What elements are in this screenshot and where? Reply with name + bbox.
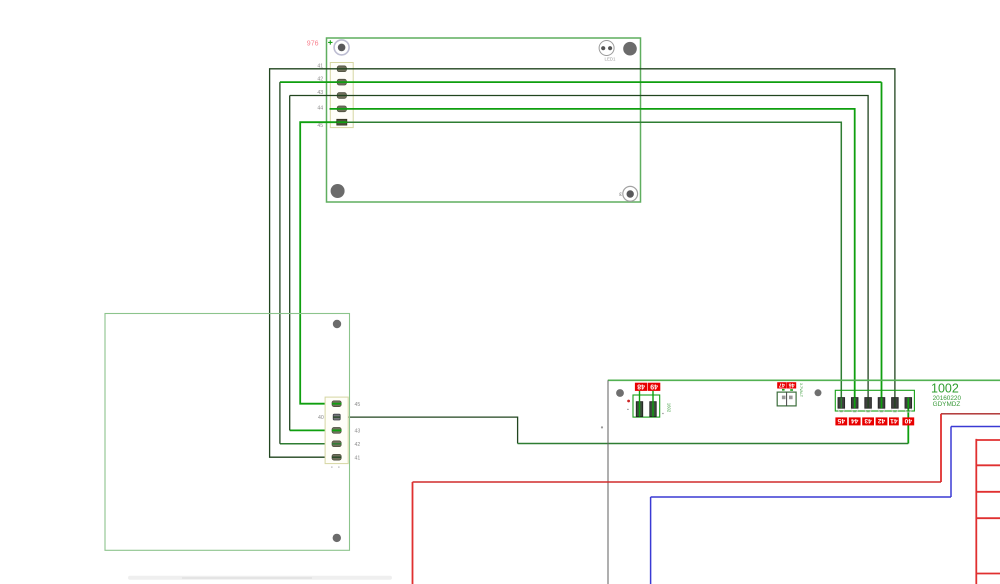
pin label 42 (J3 red) — [876, 417, 888, 425]
wire stub pad2 C48 — [652, 391, 654, 417]
mounting hole H7 — [616, 389, 624, 397]
red comb rung 2 — [976, 464, 1000, 466]
pad 40 (J3) — [905, 398, 912, 409]
origin marker — [328, 40, 332, 44]
wire over pad 45 J1 — [337, 121, 347, 123]
pad 41 (J1) — [337, 66, 346, 72]
board PCB3 left edge (gray) — [607, 380, 609, 584]
svg-text:48: 48 — [637, 382, 645, 389]
pad 42 (J3) — [878, 398, 885, 409]
red connector comb vertical — [975, 439, 977, 584]
pin label 44 (J3 red) — [849, 417, 861, 425]
wire net43 left vertical — [289, 96, 291, 431]
wire over pad 40 J2 — [333, 416, 340, 418]
wire net40 long horizontal — [518, 443, 909, 445]
svg-text:43: 43 — [317, 90, 323, 96]
svg-text:976: 976 — [307, 41, 319, 48]
wire net42 left vertical — [279, 82, 281, 444]
wire net41 — [270, 69, 895, 457]
wire net43 top and right — [290, 96, 868, 404]
blue trace left vertical — [650, 497, 652, 584]
tick marks below connector J2 — [331, 467, 333, 468]
ref label 47 (red) — [777, 382, 787, 388]
tiny gray mark C — [601, 426, 603, 428]
mounting hole H5 — [333, 320, 341, 328]
wire over pad 44 J1 — [337, 108, 347, 110]
wire net42 bottom segment — [280, 443, 337, 445]
svg-text:42: 42 — [878, 417, 886, 424]
blue trace right vertical — [950, 427, 952, 498]
red marker dot — [627, 400, 630, 403]
component C48 pad 2 — [650, 402, 656, 417]
connector J3 scallop arcs — [838, 410, 912, 413]
svg-text:LED1: LED1 — [605, 57, 617, 62]
wire net40 left segment — [337, 417, 518, 443]
svg-text:1602: 1602 — [667, 403, 672, 413]
pad 43 (J2) — [332, 428, 341, 434]
wire over pad 43 J1 — [337, 95, 347, 97]
wire stub pad1 C48 — [639, 391, 641, 417]
svg-text:43: 43 — [864, 417, 872, 424]
wire net42 top horizontal — [280, 81, 882, 83]
board outline PCB2 (left board) — [105, 314, 350, 551]
mounting hole H3 bottom-left — [331, 184, 345, 198]
pad 42 (J2) — [332, 441, 341, 447]
mounting hole H1 top-left — [334, 40, 349, 55]
LED1 footprint — [599, 41, 614, 56]
svg-text:1002: 1002 — [931, 382, 959, 396]
pad 44 (J1) — [337, 106, 346, 112]
blue trace top stub — [951, 426, 1000, 428]
component U46 pad right — [789, 396, 793, 400]
svg-text:45: 45 — [355, 402, 361, 408]
wire over pad 41 J3 — [894, 398, 896, 409]
ref label 46 (red) — [787, 382, 796, 388]
board outline PCB1 (top display board) — [327, 38, 641, 202]
svg-text:3.7VALT: 3.7VALT — [799, 383, 803, 398]
wire over pad 41 J2 — [332, 456, 341, 458]
svg-text:42: 42 — [317, 76, 323, 82]
wire net42 right vertical — [881, 82, 883, 403]
ref label 48 (red) — [635, 383, 647, 391]
pad 45 (J1) — [337, 119, 347, 125]
component C48 pad 1 — [636, 402, 642, 417]
component U46 outline — [777, 392, 796, 406]
svg-text:43: 43 — [355, 429, 361, 435]
pad 45 (J3) — [838, 398, 845, 409]
pad 41 (J2) — [332, 454, 341, 460]
component U46 pads top — [782, 389, 785, 391]
mounting hole H4 bottom-right — [619, 186, 637, 201]
red comb rung 1 — [976, 439, 1000, 441]
pin label 43 (J3 red) — [862, 417, 874, 425]
wire over pad 45 J3 — [840, 398, 842, 409]
svg-text:40: 40 — [318, 415, 324, 421]
svg-text:44: 44 — [317, 105, 323, 111]
pad 43 (J3) — [865, 398, 872, 409]
svg-text:45: 45 — [837, 417, 845, 424]
red trace left vertical — [412, 482, 414, 584]
svg-text:49: 49 — [650, 382, 658, 389]
wire over pad 42 J1 — [337, 81, 347, 83]
red trace top stub — [941, 413, 1000, 415]
svg-text:46: 46 — [789, 381, 795, 387]
blue trace horizontal — [651, 496, 951, 498]
tiny gray mark B — [662, 413, 664, 414]
wire over pad 44 J3 — [854, 398, 856, 409]
red trace horizontal — [413, 481, 942, 483]
pin label 45 (J3 red) — [835, 417, 847, 425]
pad 45 (J2) — [332, 401, 341, 407]
svg-text:42: 42 — [355, 442, 361, 448]
svg-text:41: 41 — [890, 417, 898, 424]
pin label 41 (J3 red) — [889, 417, 899, 425]
wire over pad 45 J2 — [332, 403, 341, 405]
pin label 40 (J3 red) — [902, 417, 914, 425]
pad 42 (J1) — [337, 79, 346, 85]
wire over pad 40 J3 — [907, 398, 909, 409]
component U46 pad left — [782, 396, 786, 400]
wire net44 — [330, 109, 855, 403]
connector J3 body (bottom-right board) — [835, 390, 914, 411]
wire net43 bottom segment — [290, 429, 337, 431]
svg-text:41: 41 — [355, 455, 361, 461]
svg-text:GDYMDZ: GDYMDZ — [933, 401, 961, 408]
wire over pad 41 J1 — [337, 68, 347, 70]
mounting hole H2 top-right — [623, 42, 637, 56]
red trace right vertical — [940, 414, 942, 482]
svg-text:41: 41 — [317, 63, 323, 69]
wire over pad 43 J3 — [867, 398, 869, 409]
wire over pad 42 J2 — [332, 443, 341, 445]
svg-text:ε: ε — [619, 192, 622, 198]
ref label 49 (red) — [648, 383, 660, 391]
pad 44 (J3) — [851, 398, 858, 409]
wire over pad 43 J2 — [332, 429, 341, 431]
component C48 outline — [633, 395, 660, 417]
connector J1 body (top board) — [330, 63, 353, 128]
wire net40 right vertical — [907, 403, 909, 444]
svg-text:45: 45 — [317, 123, 323, 129]
svg-text:40: 40 — [904, 417, 912, 424]
red comb rung 5 — [976, 573, 1000, 575]
wire net45 top horizontal right part — [342, 122, 842, 403]
svg-text:44: 44 — [851, 417, 859, 424]
svg-text:47: 47 — [779, 381, 785, 387]
pad 43 (J1) — [337, 93, 346, 99]
board outline PCB3 top edge (bottom-right board) — [608, 379, 1000, 381]
red comb rung 3 — [976, 491, 1000, 493]
wire over pad 42 J3 — [881, 398, 883, 409]
tiny gray mark A — [627, 409, 629, 410]
component U46 divider — [786, 392, 788, 406]
faint gray smear bottom — [128, 576, 392, 580]
red comb rung 4 — [976, 517, 1000, 519]
connector J2 body (left board) — [325, 397, 348, 464]
pad 41 (J3) — [892, 398, 899, 409]
wire net45 bottom and left vertical — [300, 122, 342, 404]
mounting hole H6 — [333, 534, 341, 542]
pad 40 (J2) — [333, 414, 340, 420]
mounting hole H8 — [815, 389, 822, 396]
